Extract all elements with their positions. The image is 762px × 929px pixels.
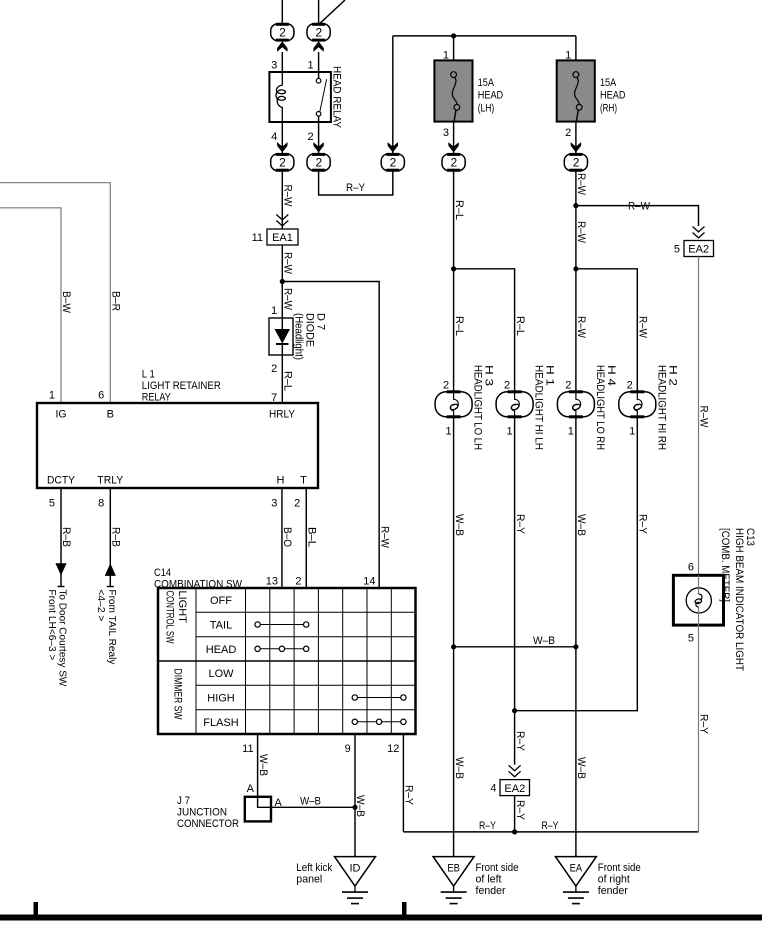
svg-text:panel: panel (296, 874, 322, 886)
connector 2 (fuse RH out) (564, 142, 587, 171)
light control sw group label (164, 591, 189, 644)
EA2 chevron arrow (lower) (509, 765, 521, 776)
svg-text:R–W: R–W (628, 201, 651, 213)
EA1 chevron arrow (276, 215, 288, 226)
svg-text:C14: C14 (154, 567, 171, 579)
svg-text:13: 13 (266, 575, 278, 587)
wire R-Y headlight H1 to EA2 (512, 417, 526, 765)
svg-text:Front LH<6–3 >: Front LH<6–3 > (46, 589, 58, 660)
svg-text:Front side: Front side (476, 862, 519, 874)
wire R-L fuse LH to headlight LO LH (451, 171, 465, 392)
wire R-Y relay pin2 connector to fuse feed connector (319, 171, 393, 195)
wire B-L relay T to combination sw pin 2 (306, 488, 318, 588)
headlight H2 name (655, 365, 678, 450)
wire feed to head relay pin 1 (319, 0, 345, 24)
wire R-L diode to HRLY (282, 355, 294, 403)
svg-text:2: 2 (565, 379, 571, 391)
svg-text:1: 1 (271, 305, 277, 317)
svg-text:IG: IG (56, 408, 67, 420)
svg-text:8: 8 (98, 498, 104, 510)
head relay box (269, 72, 331, 122)
svg-text:15A: 15A (600, 77, 617, 89)
svg-text:2: 2 (443, 379, 449, 391)
svg-text:12: 12 (387, 743, 399, 755)
svg-text:TAIL: TAIL (210, 619, 232, 631)
EA1 connector box (267, 229, 298, 245)
svg-text:H: H (277, 475, 285, 487)
headlight H2 HI RH bulb (619, 392, 656, 417)
svg-text:R–L: R–L (453, 316, 465, 336)
wire R-B DCTY to door courtesy sw (55, 488, 72, 587)
front side of right fender text (598, 862, 641, 897)
svg-text:R–L: R–L (453, 200, 465, 220)
headlight H4 name (594, 365, 617, 450)
svg-text:B–R: B–R (110, 291, 122, 311)
connector 2 (below relay pin 4) (271, 142, 294, 171)
svg-text:R–W: R–W (637, 316, 649, 339)
svg-text:R–W: R–W (575, 173, 587, 196)
svg-text:R–W: R–W (698, 406, 710, 429)
wire relay pin 4 to connector (281, 122, 283, 154)
svg-text:fender: fender (476, 885, 506, 897)
wire R-W branch to combination sw pin 14 (282, 282, 390, 589)
svg-text:R–Y: R–Y (346, 182, 366, 194)
wire R-L branch to headlight HI LH (454, 269, 526, 392)
svg-text:JUNCTION: JUNCTION (177, 806, 227, 818)
wire B-R from other page to relay pin 6 (0, 183, 122, 403)
wire fuse bus (393, 35, 576, 37)
wire R-Y ground bus horizontal (403, 820, 698, 835)
wire W-B crossbar (454, 635, 576, 647)
svg-text:DCTY: DCTY (47, 475, 76, 487)
svg-text:B–W: B–W (60, 291, 72, 314)
svg-text:HEADLIGHT LO RH: HEADLIGHT LO RH (594, 365, 606, 450)
wire R-W connector to EA1 (282, 171, 294, 229)
connector 2 (fuse LH out) (442, 142, 465, 171)
svg-text:4: 4 (271, 131, 277, 143)
left kick panel text (296, 862, 332, 886)
connector 2 (below relay pin 2) (307, 142, 330, 171)
svg-text:Left kick: Left kick (296, 862, 332, 874)
svg-text:R–Y: R–Y (698, 714, 710, 735)
svg-text:HEAD: HEAD (600, 90, 626, 102)
svg-text:R–Y: R–Y (514, 731, 526, 752)
svg-text:6: 6 (98, 390, 104, 402)
svg-text:HRLY: HRLY (269, 408, 296, 420)
wire R-B TRLY from tail relay (105, 488, 122, 587)
diode D7 name (293, 313, 327, 360)
svg-text:W–B: W–B (575, 757, 587, 779)
svg-text:W–B: W–B (533, 635, 555, 647)
svg-text:of right: of right (598, 874, 630, 886)
svg-text:L 1: L 1 (142, 368, 155, 380)
fuse 15A HEAD (RH) (557, 60, 595, 121)
diode D7 (269, 318, 293, 355)
wire R-W branch to EA2 (576, 201, 699, 227)
svg-text:14: 14 (363, 575, 375, 587)
wire R-Y C13 to ground bus (other system) (698, 625, 710, 832)
svg-text:R–Y: R–Y (479, 820, 497, 832)
svg-text:of left: of left (476, 874, 502, 886)
fuse LH name (478, 77, 504, 115)
ground EA (front side of right fender) (555, 857, 596, 904)
svg-text:2: 2 (627, 379, 633, 391)
svg-text:EB: EB (447, 863, 460, 875)
svg-text:2: 2 (504, 379, 510, 391)
svg-text:LIGHT: LIGHT (176, 591, 188, 624)
svg-text:R–Y: R–Y (637, 514, 649, 535)
svg-text:HEAD: HEAD (478, 90, 504, 102)
svg-text:EA2: EA2 (688, 244, 709, 256)
headlight H3 name (472, 365, 495, 450)
wire R-Y EA2 to ground bus (514, 796, 526, 832)
svg-text:R–W: R–W (379, 526, 391, 549)
svg-text:R–B: R–B (110, 527, 122, 547)
headlight H3 LO LH bulb (435, 392, 472, 417)
contacts TAIL row (255, 622, 309, 627)
headlight H1 HI LH bulb (496, 392, 533, 417)
wire fuse LH to connector (453, 122, 455, 154)
svg-text:5: 5 (674, 244, 680, 256)
svg-text:CONTROL SW: CONTROL SW (164, 591, 176, 644)
connector 2 (relay pin 1 feed) (307, 24, 330, 52)
svg-text:1: 1 (49, 390, 55, 402)
svg-text:R–W: R–W (575, 221, 587, 244)
svg-text:2: 2 (307, 131, 313, 143)
svg-text:LOW: LOW (208, 668, 234, 680)
contacts HEAD row (255, 646, 309, 651)
svg-text:TRLY: TRLY (97, 475, 124, 487)
wire R-Y pin 12 to ground bus (403, 734, 415, 832)
svg-text:B–O: B–O (281, 527, 293, 547)
svg-text:HEADLIGHT HI RH: HEADLIGHT HI RH (655, 365, 667, 450)
svg-text:EA: EA (570, 863, 583, 875)
svg-text:9: 9 (345, 743, 351, 755)
svg-text:HEADLIGHT LO LH: HEADLIGHT LO LH (472, 365, 484, 450)
svg-text:A: A (247, 783, 255, 795)
svg-text:5: 5 (49, 498, 55, 510)
svg-text:FLASH: FLASH (203, 717, 239, 729)
svg-text:HIGH: HIGH (207, 692, 235, 704)
contacts HIGH row (352, 695, 406, 700)
svg-text:1: 1 (307, 60, 313, 72)
svg-text:B–L: B–L (306, 527, 318, 547)
fuse 15A HEAD (LH) (434, 60, 472, 121)
relay L1 box (37, 403, 318, 488)
svg-text:5: 5 (688, 632, 694, 644)
svg-text:11: 11 (242, 743, 253, 755)
L1 light retainer relay name (142, 368, 221, 403)
head relay switch (316, 72, 326, 122)
wire into fuse LH (453, 36, 455, 74)
svg-text:W–B: W–B (300, 796, 321, 808)
headlight H1 name (533, 365, 556, 450)
wire fuse RH to connector (575, 122, 577, 154)
svg-text:(Headlight): (Headlight) (293, 313, 305, 360)
contacts FLASH row (352, 719, 406, 724)
EA2 connector box (684, 241, 714, 257)
svg-text:(LH): (LH) (478, 103, 495, 115)
source text from tail relay (95, 587, 118, 666)
svg-text:1: 1 (568, 426, 574, 438)
svg-text:2: 2 (294, 498, 300, 510)
wire R-W fuse RH to headlight LO RH (573, 171, 587, 392)
svg-text:R–Y: R–Y (403, 785, 415, 806)
wire into fuse RH (575, 36, 577, 74)
C14 combination sw title (154, 567, 243, 591)
wire fuse bus riser (392, 36, 394, 154)
svg-text:B: B (107, 408, 114, 420)
bottom frame bar (0, 902, 762, 921)
svg-text:2: 2 (295, 575, 301, 587)
combination switch C14 table (158, 588, 416, 734)
wire R-W branch to headlight HI RH (576, 269, 649, 392)
svg-text:15A: 15A (478, 77, 495, 89)
svg-text:fender: fender (598, 885, 628, 897)
svg-text:R–Y: R–Y (542, 820, 560, 832)
J7 name (177, 795, 239, 830)
svg-text:HEADLIGHT HI LH: HEADLIGHT HI LH (533, 365, 545, 450)
wire feed to head relay pin 3 (281, 0, 283, 24)
svg-text:T: T (300, 475, 307, 487)
svg-text:J 7: J 7 (177, 795, 190, 807)
wire B-O relay H to combination sw pin 13 (281, 488, 293, 588)
EA2 connector box (lower) (500, 780, 530, 796)
svg-text:EA1: EA1 (272, 232, 293, 244)
J7 junction connector (245, 797, 271, 822)
junction on fuse bus (451, 33, 456, 38)
svg-text:[COMB. METER]: [COMB. METER] (719, 528, 731, 602)
fuse RH name (600, 77, 626, 115)
wire R-W EA2 to high beam indicator (other system) (698, 257, 710, 576)
head relay coil (276, 72, 285, 122)
wire B-W from other page to relay pin 1 (0, 208, 72, 403)
wire W-B J7 to ground junction (271, 796, 355, 808)
svg-text:W–B: W–B (453, 757, 465, 779)
svg-text:W–B: W–B (575, 514, 587, 536)
ground ID (left kick panel) (335, 857, 376, 904)
svg-text:1: 1 (629, 426, 635, 438)
svg-text:(RH): (RH) (600, 103, 617, 115)
svg-text:2: 2 (565, 127, 571, 139)
svg-text:Front side: Front side (598, 862, 641, 874)
svg-text:CONNECTOR: CONNECTOR (177, 818, 239, 830)
wire relay pin 2 to connector (318, 122, 320, 154)
C13 high beam indicator light (673, 575, 723, 625)
svg-text:1: 1 (445, 426, 451, 438)
connector 2 (relay pin 3 feed) (271, 24, 294, 52)
front side of left fender text (476, 862, 519, 897)
svg-text:3: 3 (271, 498, 277, 510)
svg-text:DIMMER SW: DIMMER SW (172, 669, 184, 720)
wire R-Y headlight H2 branch (515, 417, 649, 711)
wire into relay pin 3 (281, 52, 283, 72)
svg-text:HIGH BEAM INDICATOR LIGHT: HIGH BEAM INDICATOR LIGHT (733, 528, 745, 671)
svg-text:R–W: R–W (575, 316, 587, 339)
ground EB (front side of left fender) (433, 857, 474, 904)
svg-text:R–W: R–W (282, 252, 294, 275)
svg-text:<4–2 >: <4–2 > (95, 589, 107, 621)
wire W-B pin 11 to J7 (257, 734, 269, 807)
svg-text:R–W: R–W (282, 185, 294, 208)
svg-text:OFF: OFF (210, 595, 232, 607)
C13 name (719, 528, 756, 671)
svg-text:HEAD: HEAD (206, 644, 237, 656)
svg-text:11: 11 (252, 232, 263, 244)
svg-text:R–L: R–L (514, 316, 526, 336)
connector 2 (fuse feed) (381, 142, 404, 171)
svg-text:1: 1 (506, 426, 512, 438)
wire W-B headlight H3 to ground EB (451, 417, 465, 857)
svg-text:W–B: W–B (453, 514, 465, 536)
destination text door courtesy sw (46, 587, 69, 687)
svg-text:R–Y: R–Y (514, 800, 526, 821)
svg-text:R–L: R–L (282, 371, 294, 391)
svg-text:LIGHT RETAINER: LIGHT RETAINER (142, 380, 221, 392)
svg-text:R–Y: R–Y (514, 514, 526, 535)
wire into relay pin 1 (318, 52, 320, 72)
svg-text:EA2: EA2 (504, 783, 525, 795)
headlight H4 LO RH bulb (557, 392, 594, 417)
svg-text:3: 3 (271, 60, 277, 72)
svg-text:ID: ID (350, 863, 361, 875)
svg-text:HEAD RELAY: HEAD RELAY (331, 66, 343, 129)
wire R-W EA1 to diode with junction (280, 245, 294, 318)
svg-text:R–W: R–W (282, 288, 294, 311)
svg-text:R–B: R–B (60, 527, 72, 547)
svg-text:W–B: W–B (257, 754, 269, 776)
EA2 chevron arrow (693, 227, 705, 238)
svg-text:6: 6 (688, 562, 694, 574)
svg-text:2: 2 (271, 363, 277, 375)
svg-text:3: 3 (443, 127, 449, 139)
wire W-B headlight H4 to ground EA (573, 417, 587, 857)
svg-text:4: 4 (490, 783, 496, 795)
wire W-B pin 9 to ground ID (352, 734, 366, 857)
